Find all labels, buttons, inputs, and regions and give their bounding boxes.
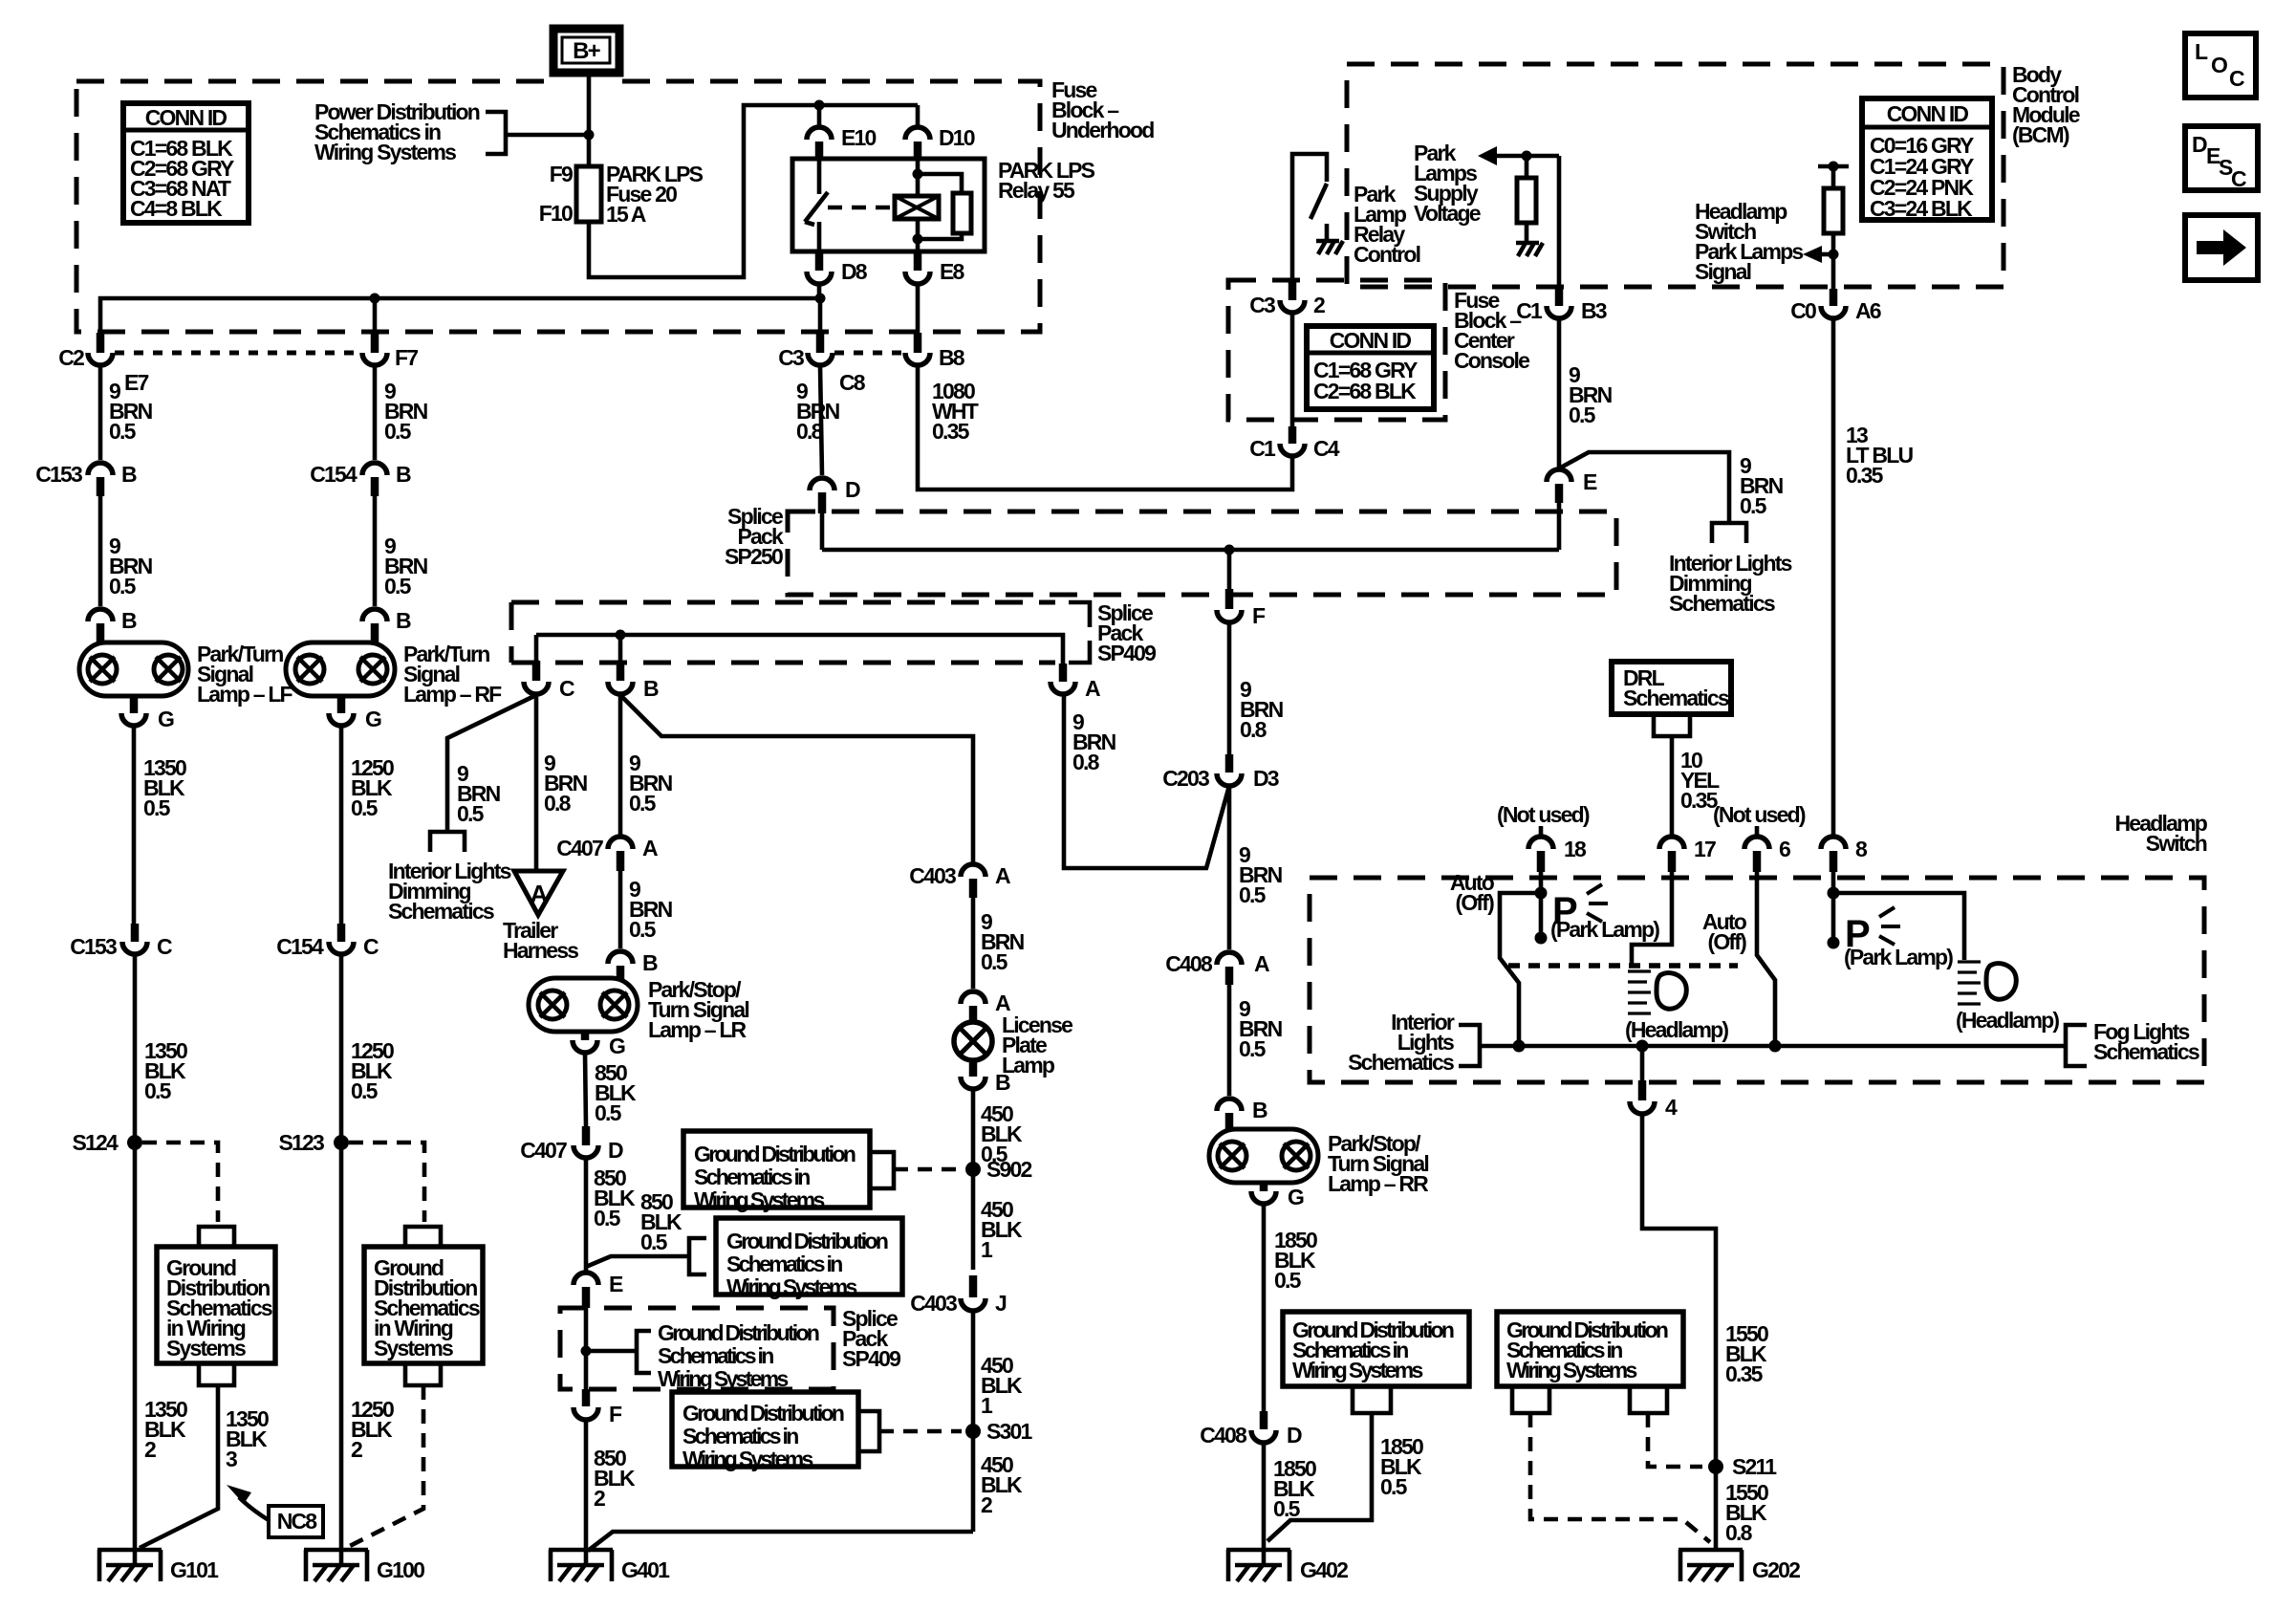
svg-text:(Not used): (Not used) [1713,802,1806,827]
svg-text:C3: C3 [1249,293,1275,317]
connector B (license lamp out) [961,1060,1010,1095]
wire 9 BRN 0.8 label (C3 drop) [796,379,840,444]
Splice Pack SP250 dashed box [788,512,1616,595]
wire bracket to B+ wire [506,133,589,138]
node SP409 lower [581,1346,592,1357]
svg-text:E: E [609,1272,623,1296]
svg-text:Schematics in: Schematics in [726,1252,842,1276]
svg-text:SP250: SP250 [725,544,783,569]
node SP250 tap F [1224,545,1235,555]
Interior Lights Dimming Schematics label (right) [1669,551,1792,616]
splice S211 [1708,1454,1777,1479]
node pin8 tap [1828,887,1840,900]
wire B branch to license feed [620,695,973,863]
wire 1250 BLK 2 label [351,1397,394,1462]
wire drop to D10 [916,105,921,125]
svg-text:0.8: 0.8 [544,791,572,816]
svg-text:B8: B8 [939,345,965,370]
svg-text:0.8: 0.8 [1072,750,1100,774]
Ground Distribution label (SP409 lower) [658,1320,819,1391]
wire 450 BLK 0.5 label [981,1101,1023,1166]
connector G (lamp LR out) [573,1032,625,1058]
bracket below ground box 1 [199,1363,234,1385]
svg-text:0.5: 0.5 [1273,1496,1301,1521]
wire fuse to relay top feed [589,105,918,277]
connector pin 6 [1744,837,1790,872]
lamp LR label [648,977,748,1042]
wire C153/C to G101 [133,955,138,1550]
wire D3 branch to SP409 A [1064,695,1229,868]
svg-text:0.5: 0.5 [1274,1268,1302,1293]
bracket below ground box 2 [405,1363,441,1385]
wire C403 A to lamp [971,898,976,989]
svg-text:C408: C408 [1165,951,1213,976]
ground G402 [1226,1550,1348,1582]
bus wire from relay D8 to left lamps feed [100,298,820,333]
B+ battery feed terminal [553,29,619,73]
svg-text:L: L [2195,39,2208,64]
Park/Turn Signal Lamp - RF [286,642,395,696]
connector pin 17 [1659,837,1716,872]
svg-text:C4=8 BLK: C4=8 BLK [130,196,223,221]
svg-text:(Headlamp): (Headlamp) [1956,1008,2059,1033]
Auto (Off) label 1 [1450,870,1495,915]
wire 1350 BLK 2 label [144,1397,187,1462]
svg-text:B: B [396,462,411,487]
svg-text:C: C [363,934,379,959]
svg-text:B: B [396,608,411,633]
connector D10 [905,125,975,159]
svg-text:0.5: 0.5 [109,419,137,444]
pole1 auto-off blade to bus [1500,893,1541,1046]
bracket interior lights dimming (right) [1712,523,1746,543]
svg-text:NC8: NC8 [277,1509,318,1534]
Ground Distribution box (E branch) [716,1218,902,1299]
ground G100 [304,1548,424,1582]
svg-text:Relay 55: Relay 55 [998,178,1075,203]
connector B8 [905,333,965,370]
forward arrow reference box [2185,215,2258,280]
svg-text:18: 18 [1564,837,1587,861]
connector A (license lamp) [961,991,1010,1023]
headlamp icon 1 [1628,971,1686,1013]
wire 1080 WHT 0.35 label [932,379,979,444]
svg-text:3: 3 [226,1447,237,1471]
arrow park lamps supply [1478,146,1497,165]
resistor (park lamps supply) [1517,156,1536,243]
connector C3 / 2 [1249,282,1325,317]
svg-text:Control: Control [1354,242,1420,267]
connector C403 / J [910,1275,1007,1316]
svg-text:(Off): (Off) [1707,929,1746,954]
svg-text:C153: C153 [70,934,117,959]
svg-text:CONN ID: CONN ID [1887,101,1969,126]
svg-text:C3=24 BLK: C3=24 BLK [1870,196,1973,221]
connector E8 [905,251,965,333]
svg-text:Ground Distribution: Ground Distribution [694,1142,856,1166]
connector A (SP409) [1051,664,1100,701]
wire C to trailer harness [534,695,539,871]
svg-text:0.35: 0.35 [1725,1361,1764,1386]
wire E branch to interior lights dimming [1559,452,1729,523]
svg-text:C203: C203 [1162,766,1209,791]
pole1 pin18 contact wire [1539,872,1544,938]
CONN ID table (BCM) [1862,98,1992,221]
svg-text:A: A [1085,676,1100,701]
connector C (SP409) [524,661,574,701]
bracket ground ref (S902) [870,1152,894,1188]
wire F7 drop from bus [373,298,378,333]
svg-text:Schematics: Schematics [1348,1050,1454,1075]
svg-text:C2: C2 [58,345,84,370]
wire DRL to pin 17 [1670,736,1675,836]
headlamp switch common bus [1480,1044,2066,1049]
svg-text:0.5: 0.5 [143,795,171,820]
node SP409 tap B [616,630,626,641]
svg-text:(Off): (Off) [1455,890,1494,915]
svg-text:Ground Distribution: Ground Distribution [658,1320,819,1345]
connector E (SP250) [1547,469,1597,503]
wire 9 BRN 0.5 label (dimming branch) [1740,453,1784,518]
svg-text:C1: C1 [1516,298,1543,323]
wire 450 BLK 1 label [981,1197,1023,1262]
lamp RF label [403,642,502,707]
Body Control Module dashed box [1347,64,2004,287]
svg-text:Underhood: Underhood [1051,118,1154,142]
Trailer Harness label [503,918,578,963]
svg-text:6: 6 [1779,837,1790,861]
CONN ID table (center console) [1307,326,1434,409]
wire B8 to C1/C4 [918,366,1292,490]
wire 1550 BLK 0.35 label [1725,1321,1768,1386]
bracket ground ref (E branch) [689,1238,706,1274]
PARK LPS Relay 55 box [792,159,985,251]
svg-text:G: G [1288,1185,1304,1209]
connector C153 / C [70,924,172,959]
connector F (below SP409 lower) [574,1389,622,1426]
node pin4 tap on bus [1636,1040,1649,1053]
node pin8 park contact [1828,937,1840,949]
svg-text:15 A: 15 A [606,202,646,227]
wire B drop [618,635,623,661]
LOC reference box [2185,33,2256,98]
Ground Distribution box (left 2) [364,1247,483,1363]
relay coil (crossed box) [895,196,939,219]
connector F7 [362,333,418,370]
svg-text:B+: B+ [573,38,601,64]
wire C154/C to G100 [339,955,344,1550]
svg-text:Wiring Systems: Wiring Systems [726,1274,856,1299]
svg-text:A: A [995,863,1010,888]
svg-text:B3: B3 [1581,298,1607,323]
svg-text:0.5: 0.5 [595,1100,622,1125]
Fuse Block - Underhood label [1051,77,1154,142]
connector G (lamp RF out) [329,696,381,731]
svg-text:Lamp – RF: Lamp – RF [403,682,502,707]
wire pin 4 to S211 [1642,1114,1716,1550]
svg-text:B: B [642,950,658,975]
svg-text:G: G [365,707,381,731]
wire 1350 BLK 0.5 label [143,755,186,820]
svg-text:0.5: 0.5 [1740,493,1767,518]
relay control dashed link [828,206,893,210]
Ground Distribution box (S301) [672,1392,858,1471]
ground G202 [1679,1550,1800,1582]
wire branch E to ground ref [586,1256,689,1267]
Park/Stop/Turn Signal Lamp - RR [1209,1129,1318,1183]
wire C403 J to S301 [971,1311,976,1532]
Interior Lights Schematics label [1348,1010,1455,1075]
svg-text:S301: S301 [986,1419,1033,1444]
wire 1850 BLK 0.5 label (box drop) [1380,1434,1423,1499]
fuse value label [606,162,704,227]
svg-text:A: A [642,836,658,860]
svg-text:Wiring Systems: Wiring Systems [1292,1358,1422,1382]
svg-text:E8: E8 [940,259,965,284]
wire 9 BRN 0.5 label (to LR lamp) [629,877,673,942]
wire 1350 BLK 3 label [226,1406,269,1471]
svg-text:G: G [609,1034,625,1058]
SP250 bus [822,548,1559,553]
svg-text:0.5: 0.5 [629,791,657,816]
lamp RR label [1328,1131,1429,1196]
svg-text:Systems: Systems [374,1336,453,1361]
wire B+ down to fuse [587,73,592,166]
Splice Pack SP250 label [725,504,784,569]
Splice Pack SP409 label [1097,600,1156,665]
svg-text:C153: C153 [35,462,82,487]
node pin18 park contact [1535,932,1548,945]
wire arrow to A6 wire [1820,252,1833,257]
wire 9 BRN 0.5 label (D3 down) [1239,842,1283,907]
svg-text:C: C [157,934,172,959]
wire 9 BRN 0.8 label (F drop) [1240,677,1284,742]
svg-text:D3: D3 [1253,766,1279,791]
wire D8 to C3 [818,298,823,333]
node pin18 auto tap [1535,887,1548,900]
svg-text:G100: G100 [377,1557,424,1582]
svg-text:C154: C154 [276,934,324,959]
svg-text:Switch: Switch [2146,831,2207,856]
svg-text:2: 2 [351,1437,362,1462]
dashed link box to G202 [1530,1413,1710,1542]
wire 13 LT BLU 0.35 label [1846,423,1913,488]
svg-text:C407: C407 [520,1138,567,1163]
svg-text:Lamp – LF: Lamp – LF [197,682,293,707]
wire B3 to E [1557,319,1562,468]
connector face dotted line C2-F7 [115,351,360,356]
connector E10 [807,125,877,159]
node signal tap [1829,250,1839,260]
connector pin 4 [1630,1080,1678,1120]
wire 9 BRN 0.5 label (C2 drop) [109,379,153,444]
splice S123 [278,1130,349,1155]
Power Distribution bracket [486,112,506,154]
svg-text:F7: F7 [395,345,418,370]
connector C408 / A [1165,951,1269,985]
svg-text:Wiring Systems: Wiring Systems [658,1366,788,1391]
node blade2 on bus [1769,1040,1782,1053]
connector B (lamp LF input) [88,608,137,642]
svg-text:B: B [121,608,137,633]
connector F (SP250) [1217,589,1266,628]
svg-text:J: J [995,1291,1007,1316]
connector B (lamp RF input) [362,608,411,642]
wire C408 D to G402 [1262,1443,1267,1565]
svg-text:CONN ID: CONN ID [1330,328,1412,353]
bracket above ground box 1 [199,1227,234,1247]
connector C1 / B3 [1516,289,1607,323]
pole3 pin8 wire [1831,872,1836,943]
fuse F9/F10 PARK LPS Fuse 20 15A [576,166,601,222]
CONN ID table (underhood) [123,103,249,223]
relay coil/resistor bottom tie [918,219,962,251]
wire 1350 BLK 0.5 label (lower) [144,1038,187,1103]
svg-text:O: O [2211,53,2228,77]
svg-text:G: G [158,707,174,731]
Ground Distribution box (left 1) [157,1247,275,1363]
wire lamp LF to C153/C [134,726,135,925]
wire F to C203 [1227,622,1232,754]
wire B to C407 A [618,695,623,836]
connector E (SP409 lower) [574,1272,623,1308]
connector G (lamp LF out) [121,696,174,731]
svg-text:0.8: 0.8 [1725,1520,1753,1545]
svg-text:Schematics in: Schematics in [694,1165,810,1189]
wire 10 YEL 0.35 label [1680,748,1720,813]
Ground Distribution box (S902) [683,1131,870,1212]
Ground Distribution box (G402) [1283,1312,1469,1386]
svg-text:(BCM): (BCM) [2012,122,2069,147]
wire C3 to D [820,366,822,475]
wire C153 to lamp LF [98,496,103,606]
svg-text:Console: Console [1454,348,1529,373]
svg-text:SP409: SP409 [842,1346,900,1371]
svg-text:0.35: 0.35 [1846,463,1884,488]
svg-text:C3: C3 [778,345,804,370]
svg-text:C403: C403 [909,863,956,888]
svg-text:0.5: 0.5 [1569,403,1596,427]
wire lamp RF to C154/C [339,726,344,924]
svg-text:0.5: 0.5 [594,1206,621,1230]
pole3 headlamp contact L [1833,893,1964,960]
resistor (park lamps signal) [1818,162,1849,290]
bracket ground ref (SP409 lower) [637,1331,651,1373]
svg-text:0.5: 0.5 [351,795,379,820]
wire 850 BLK 0.5 label (branch) [640,1189,682,1254]
park lamp icon 2 [1845,907,1900,955]
Splice Pack SP409 dashed box [511,602,1055,663]
svg-text:C4: C4 [1313,436,1340,461]
wire pin4 drop [1640,1046,1645,1080]
trailer harness triangle A [514,871,563,915]
wire C407 A to lamp LR [618,871,623,948]
headlamp icon 2 [1958,962,2016,1004]
dashed wire 1250 BLK 2 from box to G100 [346,1385,423,1548]
dashed link to S301 [879,1429,962,1434]
bracket above ground box 2 [405,1227,441,1247]
wire 1250 BLK 0.5 label [351,755,394,820]
Park/Stop/Turn Signal Lamp - LR [529,978,638,1032]
svg-text:F9: F9 [550,162,573,186]
wire node to bracket [586,1349,637,1354]
wire D3 to C408 A [1227,786,1232,949]
chassis ground (supply voltage) [1516,243,1543,256]
wire F to G401 [584,1420,589,1565]
wire drop to E10 [817,105,822,125]
wire 9 BRN 0.5 label (C153 to lamp) [109,533,153,599]
Fuse Block - Underhood (dashed enclosure) [76,81,1040,332]
dashed link S124 to ground ref [142,1143,218,1222]
wire C154 to lamp RF [373,496,378,606]
wire C408 A to lamp RR [1227,985,1232,1096]
svg-text:D: D [1287,1423,1302,1448]
Fuse Block Center Console label [1454,288,1529,373]
svg-text:(Headlamp): (Headlamp) [1625,1017,1728,1042]
connector C408 / D [1200,1411,1302,1448]
svg-text:17: 17 [1694,837,1716,861]
bracket below box (G402) [1353,1386,1391,1413]
park lamp relay control switch [1292,154,1327,282]
svg-text:Schematics in: Schematics in [682,1424,798,1448]
svg-text:E7: E7 [124,370,149,395]
License Plate Lamp label [1002,1012,1072,1078]
node coil bottom [913,234,923,245]
svg-text:G202: G202 [1752,1557,1800,1582]
Power Distribution reference label [314,99,480,164]
svg-text:0.5: 0.5 [1239,1036,1267,1061]
relay coil feed from D10 [918,159,962,196]
wire 9 BRN 0.5 label (to RR lamp) [1239,996,1283,1061]
svg-text:G101: G101 [170,1557,219,1582]
connector C1 / C4 [1249,426,1340,461]
svg-text:0.35: 0.35 [932,419,970,444]
pole2 pin6 blade to bus [1757,872,1775,1046]
wire 9 BRN 0.5 label (C diagonal) [457,761,501,826]
splice S902 [965,1157,1032,1182]
svg-text:G402: G402 [1300,1557,1348,1582]
node bus D8 tap [815,294,826,304]
connector C0 / A6 [1790,289,1881,323]
svg-text:0.5: 0.5 [144,1078,172,1103]
relay switch contact [805,159,828,251]
wire through SP409 lower [584,1308,589,1389]
Park Lamp Relay Control label [1354,182,1420,267]
svg-text:0.5: 0.5 [384,574,412,599]
chassis ground (relay control) [1316,224,1343,254]
wire 850 BLK 0.5 label (below D) [594,1165,636,1230]
Headlamp Switch Park Lamps Signal label [1695,199,1803,284]
svg-text:Schematics: Schematics [1623,686,1729,710]
svg-text:F: F [1252,603,1266,628]
Auto (Off) label 2 [1702,909,1747,954]
park lamp icon 1 [1552,884,1608,932]
wire 850 BLK 2 label [594,1446,636,1511]
Park Lamps Supply Voltage label [1414,141,1481,226]
svg-text:C403: C403 [910,1291,957,1316]
svg-text:B: B [121,462,137,487]
wire stub above pin 6 [1755,826,1760,836]
svg-text:C154: C154 [310,462,357,487]
wire 9 BRN 0.5 label (F7 drop) [384,379,428,444]
connector C154 / B [310,462,411,496]
svg-text:S902: S902 [986,1157,1032,1182]
wire 9 BRN 0.5 label (license feed) [981,909,1025,974]
wire 1850 BLK 0.5 label (lower) [1273,1456,1316,1521]
connector pin 18 [1528,837,1587,872]
dashed link S123 to ground ref [349,1143,424,1222]
bracket interior lights dimming (left) [430,832,465,852]
